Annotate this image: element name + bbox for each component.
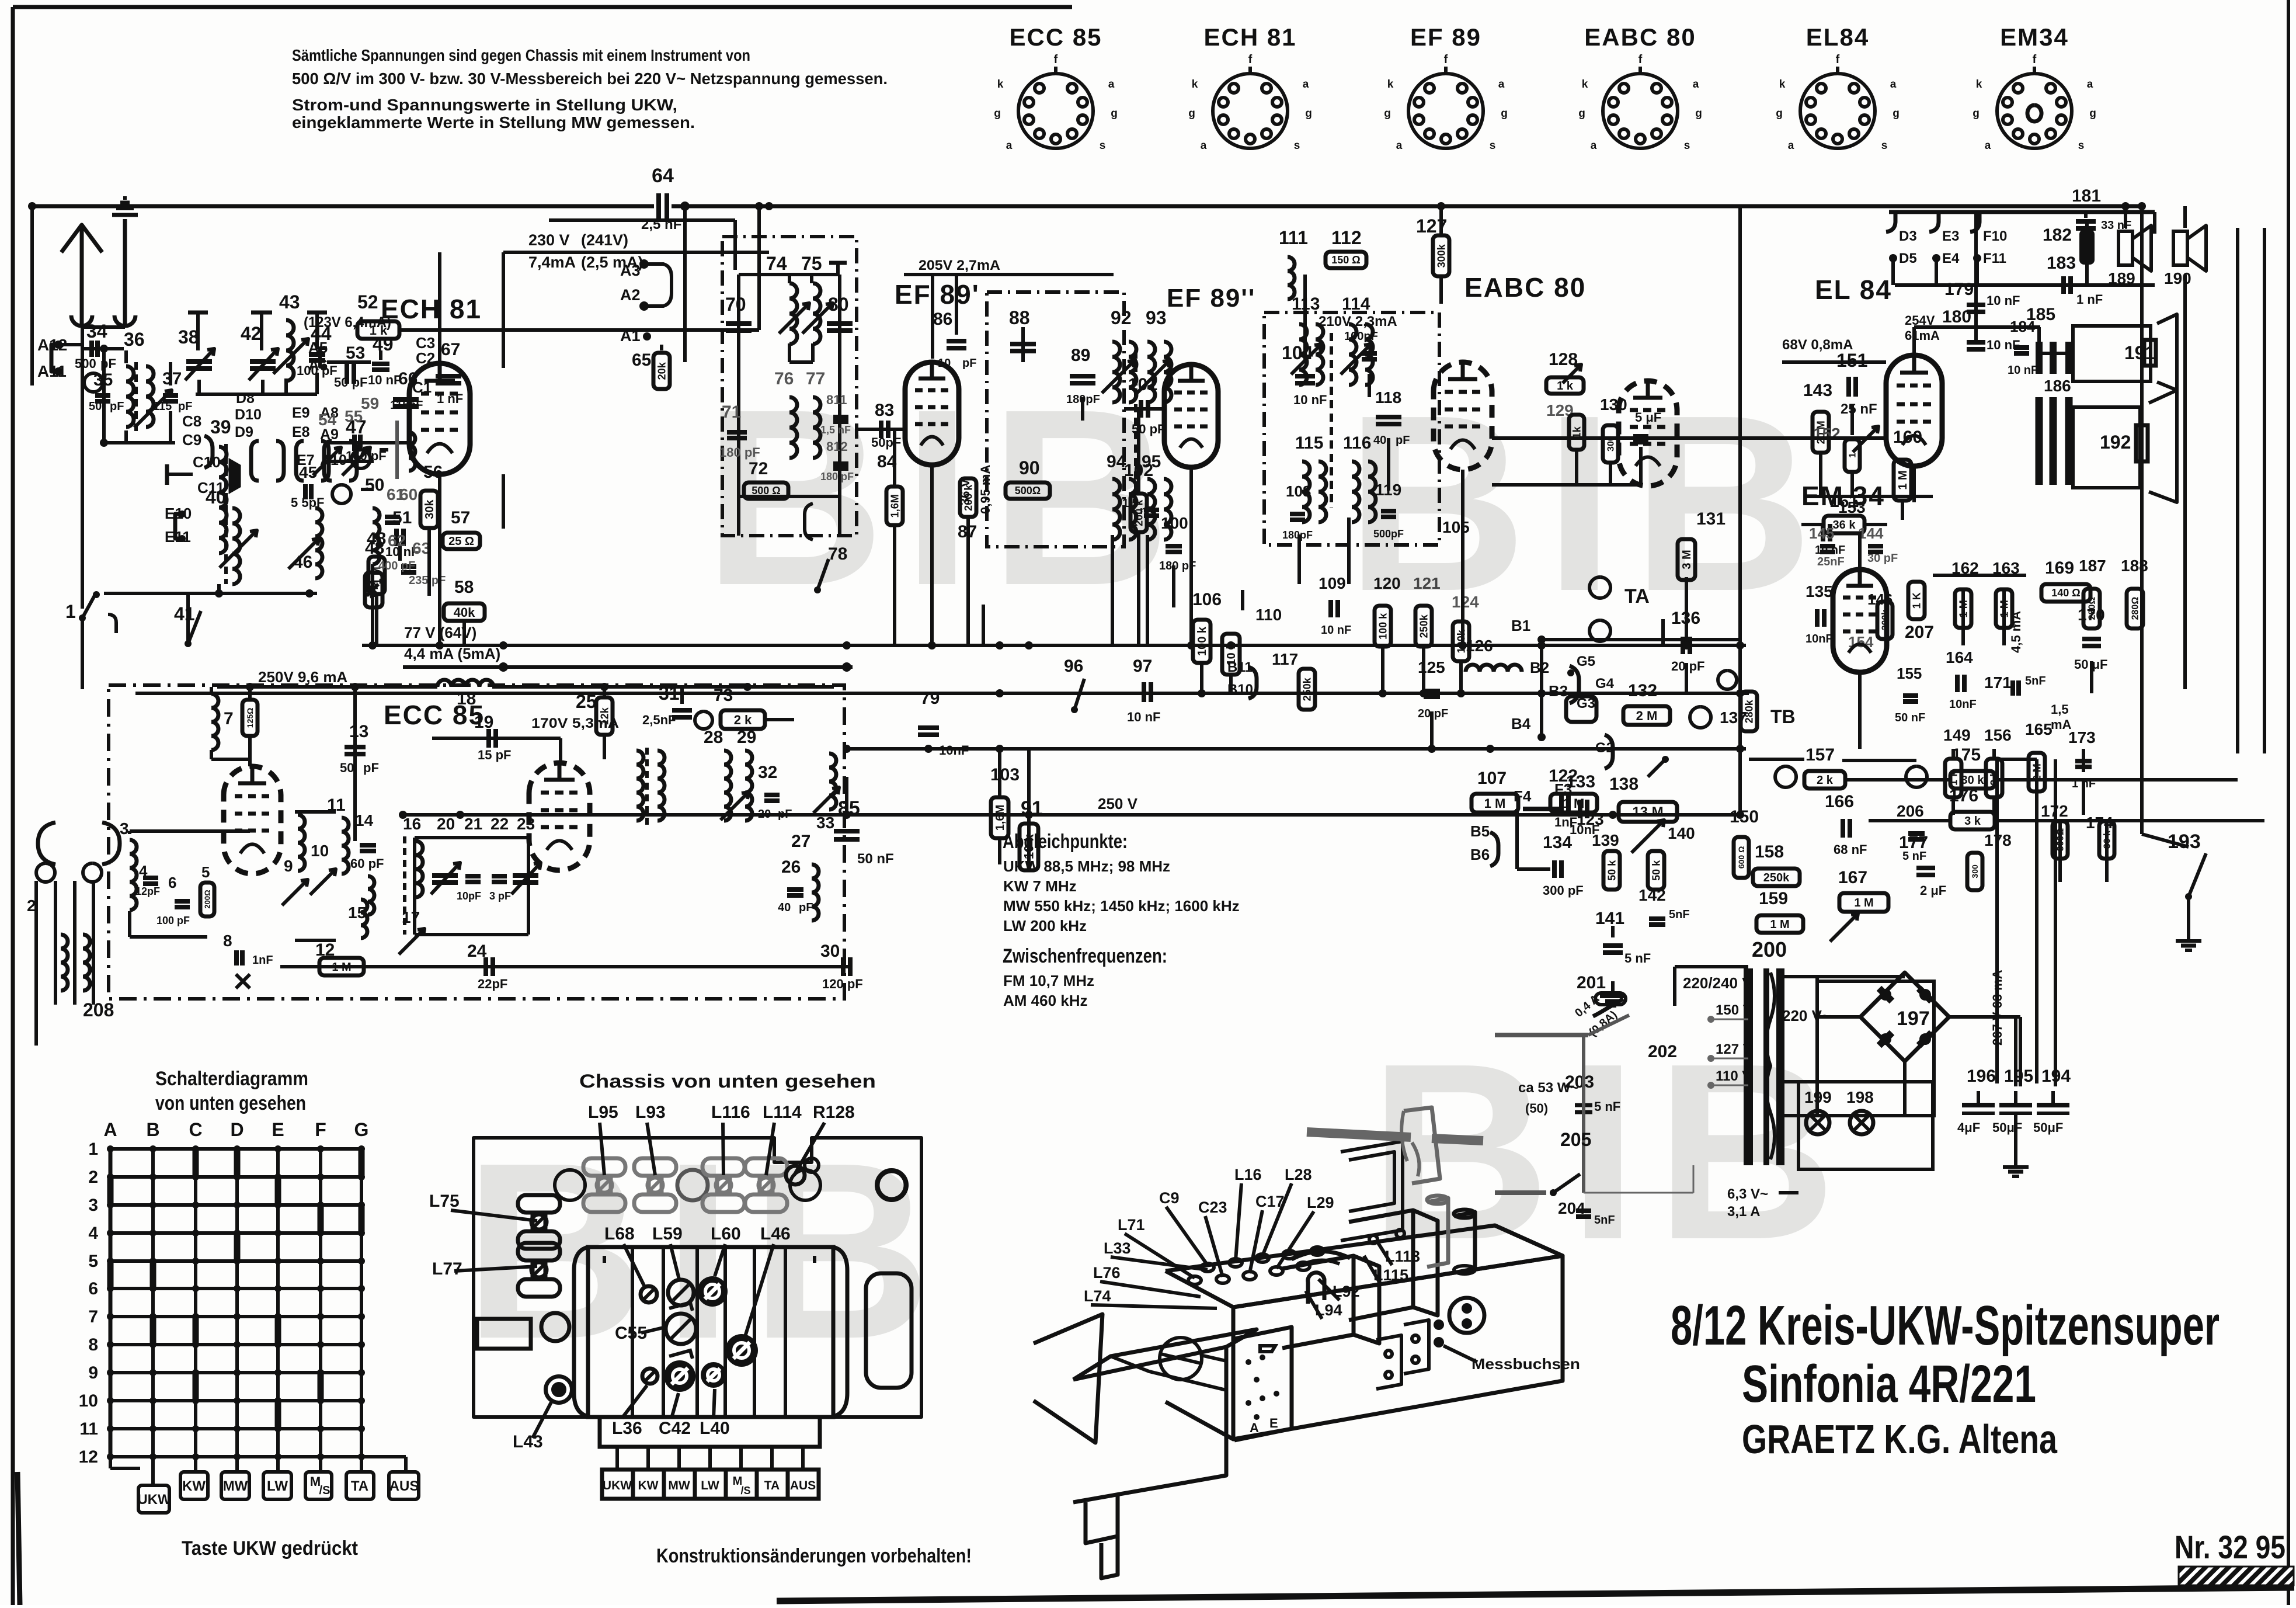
svg-text:74: 74 [766, 253, 787, 274]
svg-text:GRAETZ K.G. Altena: GRAETZ K.G. Altena [1742, 1416, 2058, 1462]
svg-text:s: s [1881, 140, 1888, 152]
svg-text:L93: L93 [635, 1103, 666, 1122]
svg-text:149: 149 [1943, 726, 1971, 744]
svg-text:4: 4 [88, 1224, 98, 1243]
svg-text:175: 175 [1951, 745, 1981, 765]
svg-text:200 k: 200 k [962, 484, 974, 511]
svg-text:7: 7 [224, 709, 234, 728]
svg-text:s: s [2078, 140, 2085, 152]
svg-text:5 μF: 5 μF [1635, 410, 1661, 425]
svg-text:2,5nF: 2,5nF [642, 713, 676, 727]
svg-text:FM 10,7 MHz: FM 10,7 MHz [1003, 972, 1094, 989]
svg-text:78: 78 [828, 544, 847, 564]
svg-text:250V 9,6 mA: 250V 9,6 mA [258, 668, 347, 686]
svg-text:35: 35 [93, 370, 113, 390]
svg-text:F4: F4 [1514, 787, 1532, 805]
svg-text:3: 3 [120, 819, 129, 838]
svg-text:50: 50 [340, 760, 354, 775]
svg-text:139: 139 [1592, 831, 1619, 849]
svg-text:EABC 80: EABC 80 [1464, 272, 1586, 303]
svg-text:1nF: 1nF [252, 954, 273, 967]
svg-text:F: F [315, 1119, 326, 1140]
svg-text:500: 500 [75, 356, 96, 371]
svg-text:Chassis von unten gesehen: Chassis von unten gesehen [579, 1071, 876, 1092]
svg-text:g: g [994, 107, 1001, 120]
svg-text:199: 199 [1804, 1088, 1832, 1106]
svg-text:89: 89 [1071, 346, 1090, 365]
svg-text:20: 20 [437, 815, 455, 833]
svg-text:5nF: 5nF [1594, 1214, 1615, 1227]
svg-text:50 pF: 50 pF [334, 375, 367, 390]
svg-text:ECH 81: ECH 81 [1203, 23, 1296, 51]
svg-text:g: g [1695, 107, 1702, 120]
svg-text:109: 109 [1319, 574, 1346, 592]
svg-text:177: 177 [1899, 833, 1928, 852]
svg-text:18: 18 [457, 689, 476, 709]
svg-text:L28: L28 [1285, 1166, 1312, 1183]
svg-text:173: 173 [2068, 728, 2096, 746]
svg-text:a: a [1890, 78, 1897, 91]
svg-text:250k: 250k [1418, 614, 1429, 638]
svg-text:100 k: 100 k [1377, 613, 1389, 640]
svg-text:50 k: 50 k [1606, 860, 1617, 881]
svg-text:Abgleichpunkte:: Abgleichpunkte: [1003, 831, 1128, 853]
svg-text:105: 105 [1442, 518, 1470, 536]
svg-text:100: 100 [1161, 514, 1188, 532]
svg-text:15 pF: 15 pF [478, 748, 511, 762]
svg-text:121: 121 [1413, 574, 1441, 592]
svg-text:D: D [230, 1119, 243, 1140]
svg-text:300 pF: 300 pF [1543, 883, 1584, 898]
svg-text:TB: TB [1770, 706, 1796, 727]
svg-text:151: 151 [1836, 350, 1867, 371]
svg-text:Taste UKW gedrückt: Taste UKW gedrückt [182, 1537, 358, 1560]
svg-text:1 K: 1 K [1911, 592, 1922, 609]
svg-text:MW: MW [668, 1479, 690, 1492]
svg-text:/S: /S [740, 1485, 750, 1496]
svg-text:R128: R128 [813, 1103, 855, 1122]
svg-text:1 k: 1 k [370, 323, 388, 338]
svg-text:L75: L75 [429, 1192, 460, 1211]
svg-text:1,6M: 1,6M [889, 494, 900, 518]
svg-text:142: 142 [1638, 886, 1666, 904]
svg-text:L40: L40 [700, 1419, 730, 1438]
svg-text:1 M: 1 M [1484, 796, 1506, 811]
svg-text:G4: G4 [1595, 676, 1615, 692]
svg-text:36: 36 [124, 329, 145, 350]
svg-text:D8: D8 [236, 390, 255, 407]
svg-text:77: 77 [806, 369, 825, 388]
svg-text:TA: TA [351, 1478, 368, 1494]
svg-text:60: 60 [399, 485, 418, 503]
svg-text:25 Ω: 25 Ω [448, 535, 474, 548]
svg-text:88: 88 [1009, 307, 1030, 328]
svg-text:5nF: 5nF [2025, 675, 2046, 687]
svg-text:100pF: 100pF [1344, 330, 1378, 343]
svg-text:60 pF: 60 pF [350, 856, 384, 871]
svg-text:94: 94 [1107, 452, 1126, 471]
svg-text:27: 27 [791, 832, 810, 851]
svg-text:189: 189 [2108, 269, 2135, 287]
svg-text:A2: A2 [620, 286, 641, 304]
svg-text:280k: 280k [1743, 699, 1755, 723]
svg-text:57: 57 [451, 508, 470, 527]
svg-text:g: g [1973, 107, 1980, 120]
svg-text:3 k: 3 k [1964, 815, 1981, 828]
svg-text:Schalterdiagramm: Schalterdiagramm [155, 1068, 308, 1090]
svg-text:B6: B6 [1470, 846, 1490, 863]
svg-text:L95: L95 [588, 1103, 618, 1122]
svg-text:22: 22 [490, 815, 509, 833]
svg-text:B5: B5 [1470, 822, 1490, 840]
svg-text:5 nF: 5 nF [1594, 1099, 1620, 1114]
svg-text:pF: pF [799, 901, 813, 914]
svg-text:65: 65 [632, 350, 651, 370]
svg-text:L16: L16 [1234, 1166, 1262, 1183]
svg-text:f: f [1248, 53, 1253, 66]
svg-text:8: 8 [223, 932, 232, 950]
svg-text:E9: E9 [292, 405, 310, 421]
svg-text:1,5: 1,5 [2051, 702, 2069, 717]
svg-text:96: 96 [1064, 657, 1083, 676]
svg-text:200: 200 [1752, 937, 1787, 961]
svg-text:158: 158 [1755, 842, 1784, 862]
svg-text:AUS: AUS [790, 1479, 816, 1492]
svg-text:140 Ω: 140 Ω [2051, 587, 2080, 599]
svg-text:EABC 80: EABC 80 [1584, 23, 1696, 51]
svg-text:108: 108 [1286, 482, 1311, 500]
svg-text:180 pF: 180 pF [820, 471, 854, 482]
svg-text:120: 120 [1373, 574, 1401, 592]
svg-text:112: 112 [1331, 227, 1362, 248]
svg-text:10: 10 [938, 357, 951, 370]
svg-text:4,4 mA (5mA): 4,4 mA (5mA) [404, 645, 500, 662]
svg-text:pF: pF [778, 808, 792, 821]
svg-text:a: a [1693, 78, 1699, 91]
svg-text:59: 59 [361, 394, 379, 412]
svg-text:53: 53 [346, 343, 365, 363]
svg-text:50 pF: 50 pF [1132, 422, 1165, 436]
svg-text:MW: MW [223, 1478, 248, 1494]
svg-text:1 nF: 1 nF [2076, 292, 2103, 307]
svg-text:Konstruktionsänderungen vorbeh: Konstruktionsänderungen vorbehalten! [656, 1545, 972, 1567]
svg-text:10 nF: 10 nF [1293, 393, 1327, 407]
svg-text:25nF: 25nF [1817, 555, 1845, 568]
svg-text:40: 40 [778, 901, 791, 914]
svg-text:150 V: 150 V [1716, 1002, 1752, 1018]
svg-text:198: 198 [1846, 1088, 1874, 1106]
svg-text:25 nF: 25 nF [1841, 401, 1877, 417]
svg-text:4μF: 4μF [1957, 1120, 1980, 1135]
svg-text:(2,5 mA): (2,5 mA) [581, 253, 643, 271]
svg-text:EL84: EL84 [1806, 23, 1869, 51]
svg-text:64: 64 [652, 165, 674, 187]
svg-text:134: 134 [1543, 833, 1572, 852]
svg-text:D5: D5 [1899, 251, 1917, 266]
svg-text:UKW: UKW [137, 1492, 171, 1508]
svg-text:BIB: BIB [464, 1111, 949, 1391]
svg-text:3: 3 [88, 1196, 98, 1215]
svg-text:116: 116 [1343, 433, 1371, 453]
svg-text:A: A [103, 1119, 117, 1140]
svg-text:5: 5 [201, 863, 210, 881]
svg-text:250k: 250k [1301, 677, 1313, 701]
svg-text:C23: C23 [1198, 1199, 1227, 1216]
svg-text:10 nF: 10 nF [368, 373, 401, 387]
svg-text:2 μF: 2 μF [1920, 883, 1946, 898]
svg-text:124: 124 [1452, 593, 1479, 611]
svg-text:182: 182 [2043, 225, 2072, 245]
svg-text:5nF: 5nF [1669, 908, 1690, 921]
svg-text:Sinfonia 4R/221: Sinfonia 4R/221 [1742, 1355, 2036, 1413]
svg-text:155: 155 [1897, 665, 1922, 682]
svg-text:66: 66 [398, 369, 418, 388]
svg-text:135: 135 [1806, 582, 1833, 600]
svg-text:2 k: 2 k [734, 713, 752, 727]
svg-text:7,4mA: 7,4mA [528, 253, 576, 271]
svg-text:180: 180 [1942, 307, 1971, 327]
svg-text:pF: pF [409, 399, 423, 412]
svg-text:61mA: 61mA [1905, 328, 1940, 343]
svg-text:138: 138 [1609, 775, 1638, 794]
svg-text:10: 10 [79, 1391, 98, 1411]
svg-text:eingeklammerte Werte in Stellu: eingeklammerte Werte in Stellung MW geme… [292, 113, 695, 131]
svg-text:43: 43 [279, 291, 300, 312]
svg-text:50 k: 50 k [1650, 860, 1662, 881]
svg-text:62: 62 [388, 532, 406, 550]
svg-text:2: 2 [88, 1168, 98, 1187]
svg-text:100 k: 100 k [1196, 626, 1209, 656]
svg-text:pF: pF [962, 357, 976, 370]
svg-text:3,1 A: 3,1 A [1727, 1204, 1760, 1220]
svg-text:166: 166 [1825, 792, 1854, 811]
svg-text:6: 6 [168, 874, 176, 891]
svg-text:10: 10 [311, 842, 329, 860]
svg-text:150: 150 [1730, 807, 1759, 826]
svg-text:LW 200 kHz: LW 200 kHz [1003, 917, 1087, 935]
svg-text:2 k: 2 k [1817, 774, 1834, 787]
svg-text:C2: C2 [416, 349, 435, 367]
svg-text:L60: L60 [711, 1224, 741, 1244]
svg-text:36 k: 36 k [1833, 519, 1856, 532]
svg-text:10nF: 10nF [1806, 633, 1833, 645]
svg-text:/S: /S [319, 1484, 331, 1497]
svg-text:75: 75 [801, 253, 822, 274]
svg-text:254V: 254V [1905, 313, 1935, 328]
svg-text:230 V: 230 V [528, 231, 570, 249]
svg-text:E8: E8 [292, 424, 310, 440]
svg-text:1,5 nF: 1,5 nF [820, 424, 851, 436]
svg-text:7: 7 [88, 1307, 98, 1326]
svg-text:1,6M: 1,6M [994, 805, 1007, 831]
svg-text:100 pF: 100 pF [156, 915, 190, 926]
svg-text:79: 79 [920, 689, 940, 708]
svg-text:9: 9 [88, 1363, 98, 1383]
svg-text:145: 145 [1809, 525, 1834, 542]
svg-text:B2: B2 [1530, 659, 1549, 676]
svg-text:50μF: 50μF [1992, 1120, 2022, 1135]
svg-text:L76: L76 [1093, 1264, 1121, 1281]
svg-text:13 M: 13 M [1632, 804, 1663, 820]
svg-text:A: A [1250, 1421, 1259, 1435]
svg-text:12pF: 12pF [135, 885, 160, 897]
svg-text:300: 300 [1970, 864, 1980, 878]
svg-text:300k: 300k [1435, 244, 1447, 268]
svg-text:a: a [1201, 140, 1207, 152]
svg-text:2 M: 2 M [1636, 709, 1658, 723]
svg-text:23: 23 [517, 815, 535, 833]
svg-text:500 Ω/V im 300 V- bzw. 30 V-Me: 500 Ω/V im 300 V- bzw. 30 V-Messbereich … [292, 70, 888, 88]
svg-text:10 nF: 10 nF [1987, 293, 2020, 308]
svg-text:143: 143 [1803, 381, 1832, 400]
svg-text:L114: L114 [763, 1103, 802, 1122]
svg-text:90: 90 [1019, 457, 1040, 478]
svg-text:f: f [1836, 53, 1840, 66]
svg-text:TA: TA [1624, 585, 1650, 607]
svg-text:C9: C9 [1159, 1189, 1180, 1207]
svg-text:3 M: 3 M [1681, 550, 1693, 569]
svg-text:68 nF: 68 nF [1834, 842, 1867, 857]
svg-text:3 pF: 3 pF [489, 890, 511, 902]
svg-text:C: C [189, 1119, 202, 1140]
svg-text:6: 6 [88, 1279, 98, 1298]
svg-text:14: 14 [355, 811, 374, 829]
svg-text:L46: L46 [760, 1224, 791, 1244]
svg-text:111: 111 [1279, 227, 1308, 248]
svg-text:188: 188 [2121, 557, 2148, 575]
svg-text:170V 5,3mA: 170V 5,3mA [531, 716, 619, 731]
svg-text:6,3 V~: 6,3 V~ [1727, 1186, 1768, 1202]
svg-text:B3: B3 [1549, 682, 1568, 700]
svg-text:2: 2 [27, 897, 36, 915]
svg-text:26: 26 [781, 857, 801, 877]
svg-text:F10: F10 [1983, 228, 2007, 244]
svg-text:128: 128 [1549, 350, 1578, 369]
svg-text:10pF: 10pF [457, 890, 481, 902]
svg-text:10 nF: 10 nF [1987, 338, 2020, 352]
svg-text:Sämtliche Spannungen sind gege: Sämtliche Spannungen sind gegen Chassis … [292, 46, 750, 64]
svg-text:C9: C9 [182, 431, 201, 449]
svg-text:171: 171 [1984, 673, 2012, 692]
svg-text:140: 140 [1668, 824, 1695, 842]
svg-text:EF 89': EF 89' [895, 279, 980, 310]
svg-text:280Ω: 280Ω [2131, 597, 2141, 620]
svg-text:a: a [1498, 78, 1505, 91]
svg-text:a: a [1985, 140, 1991, 152]
svg-text:205V 2,7mA: 205V 2,7mA [919, 258, 1000, 273]
svg-text:160: 160 [1893, 428, 1922, 447]
svg-text:164: 164 [1946, 648, 1973, 666]
svg-text:1 M: 1 M [1897, 470, 1909, 489]
svg-text:202: 202 [1648, 1042, 1677, 1061]
svg-text:s: s [1294, 140, 1300, 152]
svg-text:EL 84: EL 84 [1815, 275, 1892, 305]
svg-text:KW 7 MHz: KW 7 MHz [1003, 877, 1077, 895]
svg-text:101: 101 [1128, 375, 1157, 394]
svg-text:191: 191 [2124, 342, 2155, 363]
svg-text:114: 114 [1342, 294, 1370, 314]
svg-text:a: a [1006, 140, 1013, 152]
svg-text:8: 8 [88, 1335, 98, 1355]
svg-text:g: g [1776, 107, 1783, 120]
svg-text:AM 460 kHz: AM 460 kHz [1003, 992, 1088, 1009]
svg-text:179: 179 [1944, 280, 1974, 299]
svg-text:157: 157 [1806, 745, 1835, 765]
svg-text:67: 67 [441, 340, 460, 359]
svg-text:76: 76 [774, 369, 794, 388]
svg-text:pF: pF [110, 400, 124, 413]
svg-text:55: 55 [345, 407, 363, 425]
svg-text:12: 12 [79, 1447, 98, 1467]
svg-text:30k: 30k [423, 499, 436, 519]
svg-text:B4: B4 [1511, 715, 1531, 732]
svg-text:169: 169 [2045, 558, 2074, 578]
svg-text:C42: C42 [659, 1419, 691, 1438]
svg-text:EF 89'': EF 89'' [1167, 284, 1255, 312]
svg-text:k: k [1779, 78, 1786, 91]
svg-text:500pF: 500pF [1373, 528, 1404, 540]
svg-text:185: 185 [2026, 305, 2055, 324]
svg-text:f: f [1638, 53, 1643, 66]
svg-text:Zwischenfrequenzen:: Zwischenfrequenzen: [1003, 945, 1167, 967]
svg-text:5 nF: 5 nF [1624, 951, 1651, 966]
svg-text:30 k: 30 k [1961, 774, 1985, 787]
svg-text:220/240 V: 220/240 V [1683, 974, 1752, 992]
svg-text:a: a [1788, 140, 1794, 152]
svg-text:141: 141 [1595, 909, 1624, 928]
svg-text:C8: C8 [182, 412, 201, 430]
svg-text:70: 70 [725, 294, 746, 315]
svg-text:a: a [1396, 140, 1403, 152]
svg-text:97: 97 [1133, 657, 1152, 676]
svg-text:ECC 85: ECC 85 [1009, 23, 1102, 51]
svg-text:(241V): (241V) [581, 231, 628, 249]
svg-text:156: 156 [1984, 726, 2012, 744]
svg-text:g: g [1501, 107, 1508, 120]
svg-text:L29: L29 [1307, 1194, 1334, 1211]
svg-text:AUS: AUS [389, 1478, 419, 1494]
svg-text:13: 13 [349, 722, 368, 741]
svg-text:L33: L33 [1104, 1239, 1131, 1257]
svg-text:1 M: 1 M [332, 961, 351, 974]
svg-text:g: g [1188, 107, 1195, 120]
svg-text:pF: pF [1396, 434, 1410, 447]
svg-text:208: 208 [83, 999, 114, 1020]
svg-text:110: 110 [1255, 606, 1282, 624]
svg-text:50 nF: 50 nF [857, 851, 894, 867]
svg-text:1 M: 1 M [1854, 897, 1873, 909]
svg-text:L71: L71 [1118, 1216, 1145, 1234]
svg-text:F11: F11 [1983, 251, 2006, 266]
svg-text:250k: 250k [1763, 871, 1790, 884]
svg-text:f: f [1054, 53, 1058, 66]
svg-text:30: 30 [820, 942, 840, 961]
svg-text:BIB: BIB [1346, 363, 1831, 644]
svg-text:152: 152 [1813, 425, 1841, 443]
svg-text:159: 159 [1759, 889, 1788, 908]
svg-text:192: 192 [2100, 432, 2131, 453]
svg-text:E3: E3 [1942, 228, 1959, 244]
svg-text:pF: pF [363, 760, 379, 775]
svg-text:811: 811 [826, 393, 847, 407]
svg-text:a: a [1591, 140, 1597, 152]
svg-text:39: 39 [210, 416, 231, 437]
svg-text:k: k [1192, 78, 1198, 91]
svg-text:50: 50 [365, 475, 384, 495]
svg-text:pF: pF [178, 400, 192, 413]
svg-text:50pF: 50pF [871, 435, 901, 450]
svg-text:31: 31 [659, 683, 680, 704]
